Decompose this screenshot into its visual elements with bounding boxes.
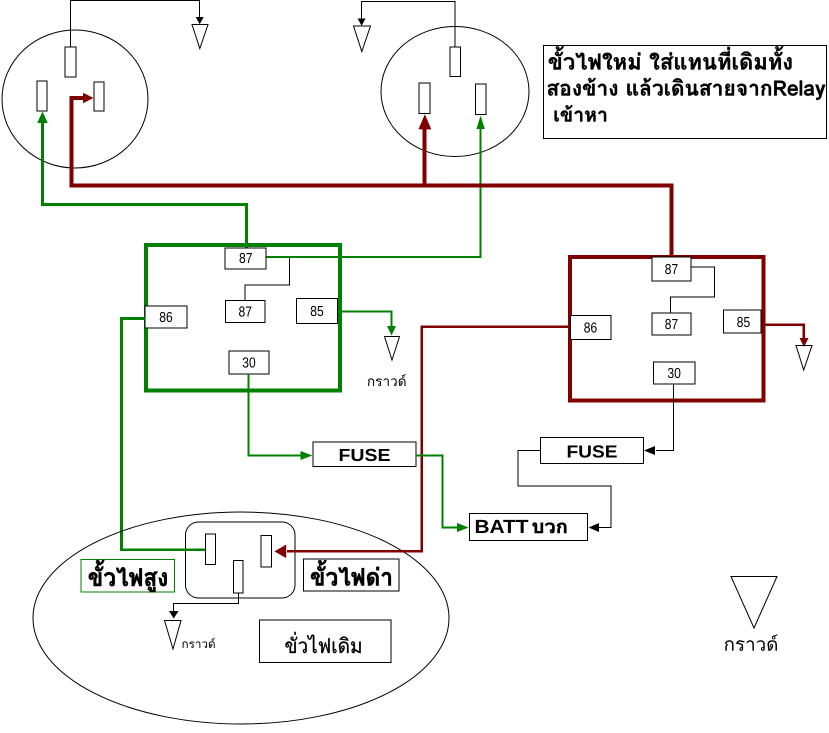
wire black fuse2 to battery bbox=[518, 451, 611, 528]
wire connector ground pin to ground bbox=[174, 593, 239, 612]
text line1 bbox=[549, 46, 792, 69]
wire green relay1 87 to L2 right pin bbox=[266, 126, 480, 257]
batt text bbox=[476, 520, 528, 533]
ground symbol L2 bbox=[354, 26, 371, 52]
L1 pin right bbox=[94, 82, 104, 111]
wire green relay1 85 to ground bbox=[338, 312, 392, 328]
note text box bbox=[544, 46, 827, 139]
arrowhead dark red right into L1 right pin bbox=[83, 93, 94, 104]
ground symbol connector bbox=[165, 621, 182, 650]
fuse2 text bbox=[568, 445, 617, 457]
relay1 internal wire 87-87 bbox=[245, 258, 290, 301]
arrowhead black left into fuse2 bbox=[644, 446, 655, 455]
wire green into connector high pin bbox=[120, 548, 206, 551]
relay K2 body (dark red) bbox=[570, 257, 764, 400]
arrowhead green up into L2 right pin bbox=[476, 116, 484, 130]
arrowhead green down relay1 ground bbox=[387, 326, 396, 336]
wire dark red relay2 85 to ground bbox=[764, 325, 804, 339]
label text original bbox=[285, 632, 360, 653]
ground symbol relay2 bbox=[796, 346, 812, 371]
label text BATT bbox=[533, 523, 567, 533]
pin text 86 bbox=[160, 312, 172, 322]
connector pin low bbox=[261, 536, 272, 568]
fuse1 text bbox=[340, 449, 390, 461]
wire dark red relay2 87 to both lamps bbox=[72, 98, 672, 257]
label box original terminal bbox=[260, 620, 392, 663]
pin text 87 bbox=[239, 306, 251, 316]
arrowhead down connector ground bbox=[169, 611, 179, 619]
L2 pin right bbox=[475, 84, 486, 115]
label box high-beam (green) bbox=[81, 560, 175, 593]
fuse F1 bbox=[313, 442, 416, 467]
relay1 pin label 30 bbox=[229, 351, 269, 374]
pin text 30 bbox=[243, 357, 256, 367]
arrowhead black left into battery bbox=[589, 523, 599, 532]
relay2 pin label 87 mid bbox=[652, 313, 691, 335]
relay1 pin label 86 bbox=[145, 306, 187, 328]
arrowhead down at L2 ground bbox=[358, 19, 366, 26]
relay1 pin label 87 mid bbox=[226, 301, 266, 323]
arrowhead green up into L1 left pin bbox=[37, 112, 48, 124]
ground symbol L1 bbox=[192, 25, 208, 49]
label text low-beam bbox=[311, 560, 391, 586]
arrowhead dark red left into connector low pin bbox=[274, 545, 286, 559]
pin text 87 bbox=[665, 264, 677, 274]
arrowhead dark red up into L2 left pin bbox=[418, 114, 431, 129]
label box low-beam bbox=[304, 559, 400, 591]
wire dark red into connector low pin bbox=[287, 550, 422, 551]
L2 pin top bbox=[450, 47, 461, 77]
pin text 87 bbox=[665, 319, 677, 329]
headlamp connector circle L1 bbox=[2, 30, 148, 168]
wire dark red relay2 86 down bbox=[422, 327, 571, 552]
relay2 internal wire 87-87 bbox=[671, 267, 715, 313]
connector body bbox=[186, 522, 296, 598]
original lamp ellipse bbox=[33, 512, 449, 724]
pin text 85 bbox=[311, 306, 323, 316]
relay1 pin label 85 bbox=[297, 299, 338, 324]
battery plus box bbox=[470, 514, 588, 541]
ground label big bbox=[725, 634, 778, 651]
L1 pin left bbox=[37, 81, 47, 111]
relay2 pin label 30 bbox=[654, 362, 696, 384]
connector pin high bbox=[206, 534, 216, 565]
relay K1 body (green) bbox=[146, 245, 340, 391]
text line3 bbox=[555, 105, 607, 121]
wire green relay1 30 to fuse1 bbox=[249, 374, 302, 456]
wire L1 top pin to ground bbox=[71, 1, 200, 48]
ground symbol relay1 bbox=[385, 337, 400, 361]
L1 pin top bbox=[65, 47, 76, 77]
wire dark red branch up to L2 left pin bbox=[423, 129, 427, 186]
relay2 pin label 87 top bbox=[652, 257, 691, 281]
relay2 pin label 85 bbox=[723, 310, 761, 333]
pin text 30 bbox=[668, 368, 681, 378]
L2 pin left bbox=[419, 83, 430, 113]
connector pin ground bbox=[234, 561, 244, 593]
fuse F2 bbox=[541, 438, 644, 464]
relay1 pin label 87 top bbox=[225, 248, 266, 269]
ground label relay1 bbox=[368, 374, 406, 386]
wire green relay1 86 down bbox=[122, 319, 146, 550]
label text high-beam bbox=[89, 560, 167, 592]
arrowhead dark red down relay2 ground bbox=[800, 338, 809, 347]
ground symbol big bbox=[731, 577, 777, 629]
wire green fuse1 to battery bbox=[416, 456, 457, 528]
arrowhead green right into battery bbox=[457, 523, 469, 532]
wire green from L1 left pin to relay1 87 bbox=[43, 121, 247, 248]
pin text 87 bbox=[240, 253, 252, 263]
headlamp connector circle L2 bbox=[381, 27, 529, 157]
pin text 85 bbox=[737, 317, 749, 327]
arrowhead green right into fuse1 bbox=[301, 451, 313, 460]
arrowhead down at L1 ground bbox=[196, 17, 204, 24]
ground label connector bbox=[182, 638, 215, 648]
wire L2 top pin to ground bbox=[362, 2, 455, 48]
text line2 bbox=[548, 78, 826, 100]
wire black relay2 30 to fuse2 bbox=[656, 384, 674, 450]
relay2 pin label 86 bbox=[571, 316, 612, 340]
pin text 86 bbox=[584, 322, 596, 332]
